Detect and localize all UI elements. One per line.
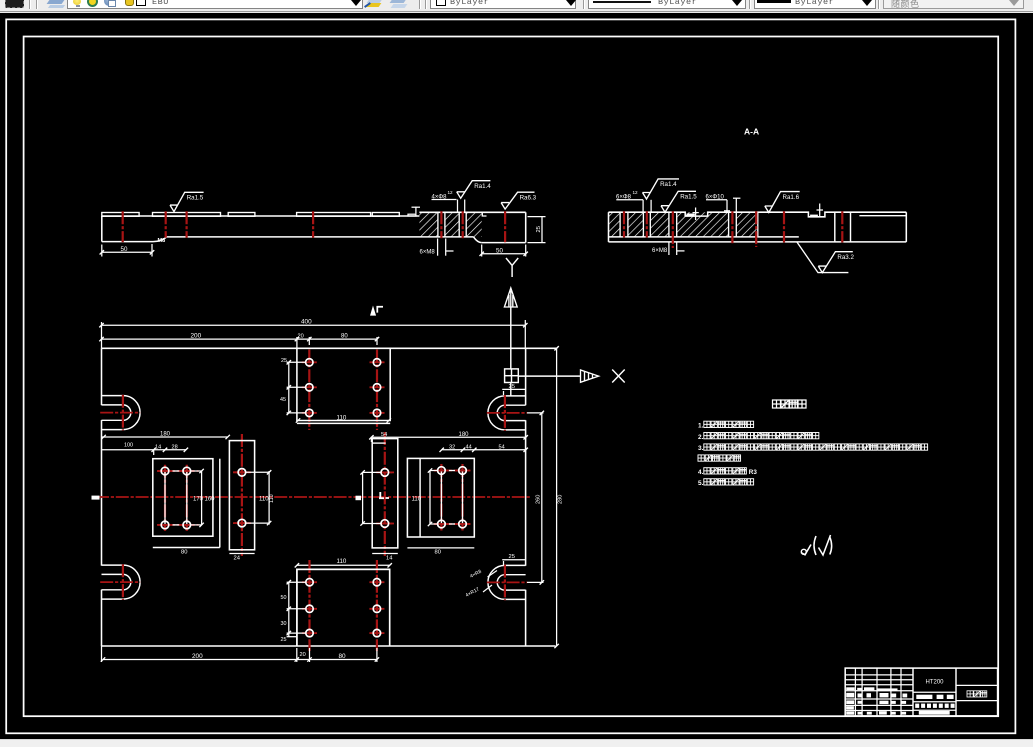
dim tick xyxy=(307,337,311,341)
bottom scrollbar strip xyxy=(0,739,1033,747)
svg-text:5.: 5. xyxy=(698,480,704,487)
hole column centerline xyxy=(376,560,378,651)
S1 hatched section areas xyxy=(419,212,438,237)
requirement line 4 (wrap) xyxy=(698,455,704,461)
dim tick xyxy=(150,250,154,254)
row ext xyxy=(363,471,381,473)
group B centerline xyxy=(241,434,243,556)
svg-text:R3: R3 xyxy=(749,469,758,476)
S1 top pads xyxy=(102,213,139,217)
red centerline xyxy=(186,211,188,237)
red centerline xyxy=(376,523,394,525)
S2 hatch end xyxy=(757,212,759,237)
svg-text:30: 30 xyxy=(281,621,287,627)
dim 25 near bottom-right slot xyxy=(502,559,526,561)
main horizontal centerline A-A xyxy=(96,496,531,498)
color control combo xyxy=(430,0,576,9)
S2 extension arrow xyxy=(819,204,821,217)
svg-text:44: 44 xyxy=(466,444,472,450)
middle column blobs xyxy=(916,695,932,699)
svg-text:2.: 2. xyxy=(698,434,704,441)
dim tick xyxy=(152,448,156,452)
group A holes xyxy=(158,470,173,472)
svg-text:14: 14 xyxy=(155,444,161,450)
dim tick xyxy=(440,448,444,452)
svg-text:25: 25 xyxy=(281,637,287,643)
svg-text:A-A: A-A xyxy=(744,127,759,137)
S2 right hole edge xyxy=(850,212,852,242)
svg-text:6×M8: 6×M8 xyxy=(652,248,668,254)
svg-text:200: 200 xyxy=(191,333,202,340)
top dim 400 xyxy=(102,324,526,326)
dim tick xyxy=(267,521,271,525)
dim tick xyxy=(101,657,105,661)
dim tick xyxy=(554,644,558,648)
dim tick xyxy=(199,523,203,527)
overall surface finish mark xyxy=(801,545,811,555)
row ext xyxy=(191,524,202,526)
svg-text:24: 24 xyxy=(234,556,241,562)
svg-text:50: 50 xyxy=(281,595,287,601)
svg-text:Ra1.6: Ra1.6 xyxy=(783,194,800,201)
svg-text:80: 80 xyxy=(339,653,347,660)
title block main verticals xyxy=(912,668,914,716)
dim tick xyxy=(524,448,528,452)
dim line 180 left xyxy=(102,436,228,438)
title block outer rect xyxy=(845,668,997,716)
S2 recess labels xyxy=(687,214,695,216)
dim tick xyxy=(375,657,379,661)
dim tick xyxy=(472,448,476,452)
lineweight preview bar xyxy=(757,0,791,3)
dim tick xyxy=(295,657,299,661)
S1 bottom left step with fillet xyxy=(102,237,167,242)
sun/freeze icon xyxy=(87,0,98,7)
svg-text:110: 110 xyxy=(337,558,347,565)
plan top edge (ext right) xyxy=(102,347,557,349)
tool button icon (dark) xyxy=(5,0,24,8)
right side dims 260/280 xyxy=(541,413,543,583)
S2 inner bottom line xyxy=(609,236,799,238)
dim tick xyxy=(101,435,105,439)
plan right edge broken by slots xyxy=(525,348,527,646)
toolbar bottom edge xyxy=(0,11,1033,12)
red centerline xyxy=(434,523,471,525)
red centerline xyxy=(122,211,124,242)
svg-text:110: 110 xyxy=(259,497,269,503)
S2 right hole edge xyxy=(834,212,836,242)
bottom dims xyxy=(103,659,377,661)
hole row centerline xyxy=(157,524,199,526)
row ext xyxy=(363,523,381,525)
hole column centerline xyxy=(308,350,310,431)
dim tick xyxy=(295,337,299,341)
lock/plot icon xyxy=(104,0,114,6)
dim tick xyxy=(199,469,203,473)
svg-text:110: 110 xyxy=(269,494,275,503)
Y axis arrowhead xyxy=(504,288,517,307)
color swatch xyxy=(436,0,446,6)
dim tick xyxy=(428,522,432,526)
svg-text:54: 54 xyxy=(499,444,505,450)
S2 outline top edge with recesses xyxy=(609,212,907,217)
right column dividers xyxy=(956,684,998,686)
dim tick xyxy=(523,323,527,327)
svg-text:1.: 1. xyxy=(698,423,704,430)
svg-text:20: 20 xyxy=(300,652,306,658)
hole column centerline xyxy=(308,560,310,651)
svg-text:170: 170 xyxy=(193,497,204,503)
S1 hole edge xyxy=(458,212,460,237)
svg-text:80: 80 xyxy=(341,334,348,340)
hole column centerline xyxy=(164,465,166,531)
red centerline xyxy=(504,211,506,242)
svg-text:12: 12 xyxy=(448,190,454,195)
dim tick xyxy=(99,323,103,327)
row ext xyxy=(246,471,269,473)
red centerline xyxy=(672,211,674,248)
layer previous icon xyxy=(390,0,407,3)
S2 hatching xyxy=(609,212,621,237)
S2 left edge xyxy=(608,212,610,242)
S1 right side dim 25 xyxy=(528,216,546,218)
dim line second level left xyxy=(102,449,186,451)
top pad bolt holes xyxy=(302,361,317,363)
hole column centerline xyxy=(186,465,188,531)
svg-text:80: 80 xyxy=(435,550,441,556)
slot vertical centerline xyxy=(122,564,124,600)
svg-text:3.: 3. xyxy=(698,445,704,452)
dim tick xyxy=(307,657,311,661)
group D bolt rect xyxy=(441,471,462,525)
pad base line xyxy=(297,422,390,424)
red centerline xyxy=(440,211,442,238)
S2 right edge xyxy=(905,212,907,242)
svg-text:HT200: HT200 xyxy=(925,680,944,686)
S1 bottom right dim 50 xyxy=(481,245,483,257)
dim tick xyxy=(287,631,291,635)
slot horizontal centerline xyxy=(100,581,140,583)
right bottom open slot xyxy=(505,564,526,566)
S1 small step xyxy=(408,214,416,216)
toolbar grip separators xyxy=(29,0,31,9)
slot vertical centerline xyxy=(504,395,506,431)
S1 hole edge xyxy=(437,212,439,237)
layer combo box xyxy=(67,0,363,9)
dim tick xyxy=(267,470,271,474)
dim tick xyxy=(540,580,544,584)
group A bolt rect xyxy=(165,471,187,525)
left bottom open slot xyxy=(102,564,124,566)
group B pitch dim xyxy=(268,471,270,525)
S1 fillet to right block bottom xyxy=(474,237,482,243)
svg-text:25: 25 xyxy=(509,554,515,560)
svg-text:180: 180 xyxy=(160,432,171,438)
svg-text:32: 32 xyxy=(449,444,455,450)
section A marker (top) xyxy=(371,308,376,316)
plan left edge broken by slots xyxy=(101,348,103,646)
UCS origin box xyxy=(505,369,519,383)
red centerline xyxy=(462,211,464,238)
S1 extension arrow xyxy=(415,207,417,214)
line below UCS box xyxy=(510,383,512,397)
dim tick xyxy=(387,418,391,422)
dim tick xyxy=(295,563,299,567)
dim tick xyxy=(375,337,379,341)
svg-text:20: 20 xyxy=(298,334,304,340)
surface finish symbol xyxy=(457,181,491,199)
dim tick xyxy=(287,580,291,584)
red centerline xyxy=(461,464,463,531)
svg-text:Ra1.4: Ra1.4 xyxy=(474,183,491,190)
leader xyxy=(483,585,492,592)
S1 hole edge xyxy=(465,212,467,237)
dim line 180/levels right xyxy=(371,436,526,438)
centerline dim texts xyxy=(92,496,100,500)
svg-text:Ra1.5: Ra1.5 xyxy=(680,194,697,201)
hole row centerline xyxy=(157,470,199,472)
X axis label xyxy=(612,370,625,383)
group D pitch dim xyxy=(429,471,431,525)
svg-text:25: 25 xyxy=(509,384,515,390)
make layer current icon xyxy=(367,0,383,3)
surface finish symbol xyxy=(643,179,680,199)
dim tick xyxy=(369,435,373,439)
svg-text:Ra1.4: Ra1.4 xyxy=(660,181,677,188)
dim tick xyxy=(540,411,544,415)
surface finish symbol xyxy=(765,192,800,213)
part name 夹具体 xyxy=(967,691,973,697)
plot style combo (disabled) xyxy=(883,0,1024,9)
dim line 110 xyxy=(297,564,390,566)
svg-text:160: 160 xyxy=(205,497,216,503)
Y axis line xyxy=(510,307,512,369)
hole column centerline xyxy=(376,350,378,431)
ext down left xyxy=(101,646,103,662)
Y axis label xyxy=(506,258,518,277)
svg-text:Ra3.2: Ra3.2 xyxy=(837,254,854,261)
grip separators xyxy=(419,0,421,9)
dim tick xyxy=(524,252,528,256)
open paren xyxy=(814,536,816,555)
S2 rabbet line xyxy=(859,215,906,217)
dim 25 near top-right slot xyxy=(502,388,526,390)
group A right strip xyxy=(219,459,221,548)
row ext xyxy=(430,523,438,525)
S1 dimension: left foot width xyxy=(101,245,103,257)
svg-text:180: 180 xyxy=(459,432,470,438)
S2 recess ext tick xyxy=(695,208,697,221)
svg-text:80: 80 xyxy=(181,550,187,556)
dim tick xyxy=(226,435,230,439)
dim tick xyxy=(296,418,300,422)
group A pitch dim xyxy=(201,471,203,525)
dim tick xyxy=(428,468,432,472)
top dim row 2 xyxy=(102,338,378,340)
red centerline xyxy=(841,211,843,242)
dim tick xyxy=(163,448,167,452)
check xyxy=(819,535,831,555)
row ext xyxy=(430,470,438,472)
svg-text:110: 110 xyxy=(337,415,347,422)
row ext xyxy=(191,470,202,472)
svg-text:Ra1.5: Ra1.5 xyxy=(187,195,204,202)
red centerline xyxy=(440,464,442,531)
lightbulb icon xyxy=(73,0,81,5)
svg-text:6×M8: 6×M8 xyxy=(420,250,436,256)
ext up left xyxy=(101,322,103,348)
slot horizontal centerline xyxy=(487,412,527,414)
red centerline xyxy=(783,211,785,242)
svg-text:280: 280 xyxy=(558,495,564,504)
red centerline xyxy=(434,470,471,472)
svg-text:Ra6.3: Ra6.3 xyxy=(520,194,537,201)
svg-text:50: 50 xyxy=(121,246,128,253)
left grid text blobs xyxy=(846,687,855,690)
svg-text:28: 28 xyxy=(172,444,178,450)
dim tick xyxy=(287,360,291,364)
right top open slot xyxy=(505,395,526,397)
bottom pad redraw over red xyxy=(297,569,390,646)
dim tick xyxy=(184,448,188,452)
surface finish symbol xyxy=(661,191,696,212)
dim tick xyxy=(360,470,364,474)
X axis line xyxy=(518,375,581,377)
svg-text:12: 12 xyxy=(633,190,639,195)
red centerline xyxy=(165,211,167,237)
layer color swatch xyxy=(136,0,146,6)
S1 bottom edge xyxy=(167,236,474,238)
X axis arrowhead xyxy=(581,370,599,382)
svg-text:25: 25 xyxy=(281,358,287,364)
close paren xyxy=(830,537,832,555)
group C pitch dim xyxy=(362,472,364,523)
bottom pad left dim stack xyxy=(287,581,306,583)
dim tick xyxy=(388,563,392,567)
svg-text:100: 100 xyxy=(124,443,133,449)
row ext xyxy=(246,522,269,524)
left grid columns xyxy=(854,668,856,716)
svg-text:200: 200 xyxy=(192,653,203,660)
red centerline xyxy=(755,211,757,247)
svg-text:50: 50 xyxy=(496,247,503,254)
dim tick xyxy=(287,411,291,415)
surface finish symbol xyxy=(170,192,204,211)
group D inner line xyxy=(419,458,421,537)
plan bottom edge (ext right) xyxy=(102,645,556,647)
red centerline xyxy=(312,211,314,237)
S2 hole edges xyxy=(619,212,621,237)
red centerline xyxy=(623,211,625,237)
surface finish symbol xyxy=(818,252,853,273)
color cylinder icon xyxy=(125,0,134,6)
dim tick xyxy=(287,607,291,611)
red centerline xyxy=(376,471,394,473)
svg-text:260: 260 xyxy=(536,495,542,504)
group A bottom line xyxy=(153,547,220,549)
group C step line xyxy=(372,442,386,444)
slot horizontal centerline xyxy=(487,581,527,583)
S1 step at right block xyxy=(482,212,486,216)
svg-text:M8: M8 xyxy=(158,238,166,244)
section A marker (middle) xyxy=(379,492,389,498)
title 技术要求 xyxy=(773,400,781,408)
slot horizontal centerline xyxy=(100,412,140,414)
dim tick xyxy=(461,448,465,452)
left top open slot xyxy=(102,395,124,397)
slot vertical centerline xyxy=(504,565,506,601)
S2 bottom finish Ra3.2 xyxy=(797,242,848,273)
left grid rows xyxy=(845,674,913,676)
leader xyxy=(488,571,498,578)
svg-text:25: 25 xyxy=(536,226,542,232)
red centerline xyxy=(731,211,733,243)
svg-text:54: 54 xyxy=(381,432,387,438)
svg-text:45: 45 xyxy=(280,397,286,403)
dim tick xyxy=(287,385,291,389)
top pad left dim stack xyxy=(287,361,306,363)
layers icon (stacked sheets) xyxy=(47,0,65,4)
svg-text:110: 110 xyxy=(412,497,422,503)
S1 hole edge xyxy=(444,212,446,237)
dim tick xyxy=(100,250,104,254)
toolbar strip (cut off at top) xyxy=(0,0,1033,13)
dim tick xyxy=(99,337,103,341)
S2 bottom edge xyxy=(609,241,907,243)
dim tick xyxy=(480,252,484,256)
dim tick xyxy=(360,521,364,525)
layer name EBU xyxy=(152,0,169,7)
group C centerline xyxy=(384,432,386,556)
red centerline xyxy=(233,522,251,524)
slot vertical centerline xyxy=(122,395,124,431)
ext up right xyxy=(524,320,526,348)
svg-text:14: 14 xyxy=(386,556,393,562)
linetype preview line xyxy=(593,1,651,3)
layer combo dropdown arrow xyxy=(351,0,361,6)
bottom center pad xyxy=(297,569,390,646)
linetype combo xyxy=(588,0,746,9)
lineweight combo xyxy=(754,0,876,9)
S1 right edge xyxy=(525,212,527,242)
svg-text:4.: 4. xyxy=(698,469,704,476)
S1 top-left side view outline xyxy=(102,215,420,217)
S1 hatch and right block top edge xyxy=(419,211,525,213)
dim tick xyxy=(554,346,558,350)
dim tick xyxy=(524,435,528,439)
middle column dividers xyxy=(913,691,956,693)
red centerline xyxy=(233,471,251,473)
surface finish symbol xyxy=(501,192,534,209)
svg-text:400: 400 xyxy=(301,318,312,325)
red centerline xyxy=(646,211,648,237)
